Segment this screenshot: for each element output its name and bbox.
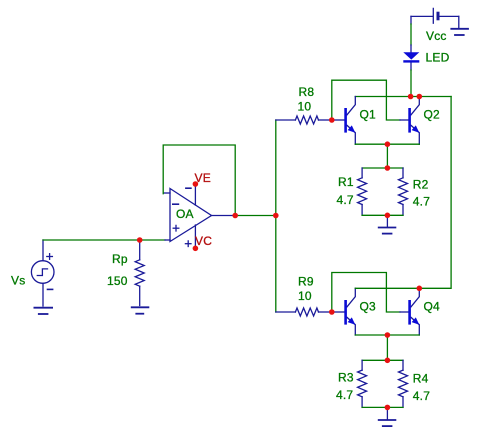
svg-text:Q2: Q2	[424, 108, 441, 122]
wire Vs to op-amp + input	[43, 239, 165, 241]
plus sign inside op-amp (non-inverting input)	[173, 225, 179, 231]
plus sign next to VC pin	[185, 241, 191, 247]
wire trunk corner to R8	[276, 119, 296, 121]
op-amp output lead	[212, 215, 236, 217]
VC supply pin of op-amp	[194, 225, 196, 247]
minus sign of Vs	[48, 288, 53, 290]
svg-text:150: 150	[107, 274, 128, 288]
wire Q3 emitter to Q4 emitter	[355, 334, 419, 336]
svg-text:OA: OA	[176, 207, 194, 221]
svg-text:R1: R1	[338, 175, 354, 189]
ground (below R3 R4)	[379, 407, 396, 426]
plus sign of Vs	[47, 254, 53, 260]
node Q1 Q2 emitters	[385, 141, 391, 147]
resistor Rp	[135, 240, 144, 306]
svg-text:4.7: 4.7	[413, 389, 430, 403]
op-amp U1 OA triangle	[170, 189, 212, 242]
transistor Q2	[400, 97, 419, 145]
node R3 R4 top	[385, 358, 391, 364]
svg-text:Q4: Q4	[424, 300, 441, 314]
wire bottom of R3 R4 parallel pair	[362, 406, 403, 408]
diode LED	[410, 45, 412, 70]
transistor Q1	[332, 97, 356, 145]
svg-text:10: 10	[298, 99, 312, 113]
node Q4 collector	[417, 286, 423, 292]
svg-text:R8: R8	[299, 85, 315, 99]
resistor R8	[295, 116, 331, 124]
resistor R9	[295, 308, 331, 316]
ground (below Rp)	[132, 307, 149, 313]
feedback wire from output junction to inverting input	[163, 145, 235, 216]
wire trunk corner to R9	[276, 311, 296, 313]
wire output junction to branch junction	[235, 215, 276, 217]
svg-text:4.7: 4.7	[337, 193, 354, 207]
svg-text:R4: R4	[413, 372, 429, 386]
wire right vertical from top rail to Q4 collector rail	[419, 97, 451, 289]
ground (below Vs)	[34, 308, 52, 314]
node R1 R2 top	[385, 165, 391, 171]
VE supply pin of op-amp	[194, 185, 196, 205]
minus sign inside op-amp (inverting input)	[173, 203, 179, 205]
svg-text:Rp: Rp	[112, 252, 128, 266]
node R3 R4 bottom	[385, 405, 391, 411]
wire emitter junction down to R1 R2	[386, 144, 388, 168]
wire top of R1 R2 parallel pair	[362, 167, 403, 169]
node R1 R2 bottom	[385, 213, 391, 219]
node junction dots	[137, 94, 422, 411]
wire Q3 collector to Q4 collector	[355, 287, 419, 289]
wire cross-coupling Q3 base to Q4 base	[332, 273, 400, 313]
svg-text:R9: R9	[298, 275, 314, 289]
wire cross-coupling Q1 base to Q2 base	[332, 80, 400, 120]
svg-text:Vs: Vs	[11, 274, 25, 288]
resistor R2	[399, 168, 408, 215]
wire emitter junction down to R3 R4	[386, 335, 388, 360]
wire bottom of R1 R2 parallel pair	[362, 214, 403, 216]
svg-text:Q3: Q3	[360, 300, 377, 314]
wire stub into inverting input	[164, 192, 170, 194]
wire stub into + input	[165, 239, 170, 241]
node Rp tap	[137, 237, 143, 243]
node Q2 collector	[417, 94, 423, 100]
node Q3 Q4 emitters	[385, 332, 391, 338]
node feedback junction	[232, 213, 238, 219]
top collector rail wire	[355, 96, 451, 98]
svg-text:10: 10	[298, 289, 312, 303]
transistor Q4	[400, 288, 419, 335]
node R9 to Q3 base	[329, 309, 335, 315]
svg-text:Q1: Q1	[360, 108, 377, 122]
vertical trunk wire to R8 and R9	[275, 120, 277, 312]
svg-text:Vcc: Vcc	[426, 29, 447, 43]
wire Q1 emitter to Q2 emitter	[355, 143, 419, 145]
node output branch junction	[273, 213, 279, 219]
ground (battery negative)	[451, 29, 468, 35]
battery Vcc	[411, 8, 459, 27]
wire top of R3 R4 parallel pair	[362, 359, 403, 361]
node R8 to Q1 base	[329, 117, 335, 123]
svg-text:R3: R3	[338, 371, 354, 385]
svg-text:R2: R2	[413, 177, 429, 191]
svg-text:LED: LED	[426, 51, 450, 65]
svg-text:4.7: 4.7	[413, 195, 430, 209]
node LED to rail	[408, 94, 414, 100]
node VC pin	[193, 246, 199, 252]
resistor R1	[358, 168, 367, 215]
node VE pin	[193, 181, 199, 187]
resistor R3	[358, 360, 367, 407]
transistor Q3	[332, 288, 356, 335]
svg-text:4.7: 4.7	[336, 388, 353, 402]
wire battery to LED	[410, 24, 412, 45]
minus sign next to VE pin	[186, 187, 191, 189]
ground (below R1 R2)	[379, 215, 396, 233]
resistor R4	[399, 360, 408, 407]
svg-text:VC: VC	[195, 234, 212, 248]
voltage source Vs	[31, 240, 54, 306]
wire LED to collector rail	[410, 70, 412, 97]
